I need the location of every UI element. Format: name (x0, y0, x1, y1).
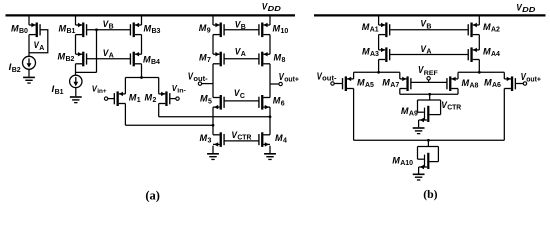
ground (413, 127, 425, 134)
transistor MB4 (130, 52, 142, 67)
svg-text:B2: B2 (12, 67, 21, 74)
terminal Vout+ (b) (523, 82, 526, 85)
wire (28, 69, 30, 76)
transistor MA9 (418, 100, 441, 127)
transistor MA3 (379, 47, 391, 62)
transistor MA4 (468, 47, 480, 62)
svg-text:in-: in- (177, 87, 186, 94)
wire (516, 83, 524, 85)
transistor MB3 (130, 23, 142, 38)
transistor MB0 (29, 23, 41, 38)
svg-text:B4: B4 (151, 59, 160, 66)
wire join right (458, 71, 504, 73)
svg-text:in+: in+ (97, 88, 107, 95)
svg-text:A: A (39, 45, 44, 52)
svg-text:A9: A9 (409, 111, 418, 118)
svg-text:B0: B0 (19, 28, 28, 35)
svg-text:B3: B3 (152, 28, 161, 35)
wire tail (125, 77, 158, 79)
wire (124, 78, 126, 94)
svg-text:DD: DD (522, 7, 535, 14)
wire VB gate line (b) (390, 29, 468, 31)
svg-text:10: 10 (281, 28, 289, 35)
wire (28, 35, 30, 57)
transistor M7 (213, 52, 225, 67)
transistor MA10 (418, 147, 439, 174)
wire (141, 17, 143, 26)
terminal Vout- (b) (331, 82, 334, 85)
svg-text:6: 6 (281, 100, 285, 107)
svg-text:1: 1 (137, 97, 141, 104)
wire (399, 72, 401, 79)
wire (28, 17, 30, 26)
transistor MA8 (446, 76, 458, 91)
svg-text:A2: A2 (491, 27, 500, 34)
wire cross upper (159, 116, 270, 118)
wire (269, 35, 271, 55)
wire cross lower (125, 124, 213, 126)
ground (207, 153, 219, 160)
wire (212, 64, 214, 98)
transistor M5 (213, 95, 225, 110)
wire (503, 72, 505, 79)
svg-text:out+: out+ (284, 76, 299, 83)
wire (353, 72, 355, 79)
svg-text:A3: A3 (370, 51, 379, 58)
wire VA gate line left (87, 58, 130, 60)
svg-text:4: 4 (283, 138, 287, 145)
transistor M4 (258, 132, 270, 147)
wire (478, 35, 480, 50)
wire VREF gate line (411, 81, 446, 83)
terminal Vin+ (104, 97, 107, 100)
svg-text:B2: B2 (66, 56, 75, 63)
wire (378, 60, 380, 73)
node (377, 71, 380, 74)
wire (141, 35, 143, 55)
svg-text:A6: A6 (492, 82, 501, 89)
wire (478, 60, 480, 73)
svg-text:REF: REF (424, 70, 438, 77)
power rail VDD (a) (6, 14, 296, 16)
ground (264, 153, 276, 160)
svg-text:5: 5 (208, 98, 212, 105)
svg-text:3: 3 (208, 138, 212, 145)
transistor M6 (258, 95, 270, 110)
svg-text:8: 8 (282, 57, 286, 64)
wire (378, 17, 380, 26)
wire (170, 98, 176, 100)
transistor MA6 (504, 76, 516, 91)
svg-text:A: A (241, 51, 246, 58)
wire (269, 107, 271, 135)
wire VB gate line left (87, 29, 130, 31)
svg-text:A10: A10 (400, 160, 413, 167)
svg-text:out-: out- (193, 76, 208, 83)
wire (75, 88, 77, 97)
wire (29, 30, 48, 53)
power rail VDD (b) (314, 14, 546, 16)
transistor M8 (258, 52, 270, 67)
wire (269, 64, 271, 98)
ground (413, 174, 425, 181)
svg-text:B: B (109, 24, 114, 31)
wire (158, 78, 160, 94)
wire join left (354, 71, 400, 73)
svg-text:7: 7 (207, 57, 211, 64)
wire (75, 72, 77, 75)
node (478, 71, 481, 74)
svg-text:B1: B1 (55, 89, 64, 96)
wire VA gate line (b) (390, 54, 468, 56)
wire (427, 140, 429, 146)
wire (353, 89, 355, 141)
wire (124, 104, 126, 126)
svg-text:C: C (240, 93, 245, 100)
terminal Vout+ (a) (279, 82, 282, 85)
wire (75, 35, 77, 55)
svg-text:B: B (241, 24, 246, 31)
ground (70, 96, 82, 103)
transistor MA1 (379, 23, 391, 38)
svg-text:DD: DD (268, 6, 281, 13)
wire (202, 83, 213, 85)
svg-text:A7: A7 (390, 82, 399, 89)
wire VA gate line right (225, 58, 260, 60)
transistor M3 (213, 132, 225, 147)
node tail junction (140, 76, 143, 79)
wire (429, 94, 431, 100)
svg-text:CTR: CTR (237, 135, 251, 142)
wire (503, 89, 505, 141)
wire (269, 146, 271, 153)
wire (270, 83, 279, 85)
node (428, 93, 431, 96)
current source IB1 (70, 75, 82, 87)
wire (141, 64, 143, 78)
terminal VREF (427, 77, 430, 80)
svg-text:9: 9 (207, 28, 211, 35)
wire (269, 17, 271, 26)
transistor M1 (114, 91, 126, 106)
svg-text:A5: A5 (365, 82, 374, 89)
transistor MA7 (400, 76, 412, 91)
svg-text:A: A (109, 53, 114, 60)
wire VB gate line right (225, 29, 260, 31)
wire (96, 30, 98, 73)
wire (212, 35, 214, 55)
svg-text:(b): (b) (423, 187, 437, 201)
wire VCTR gate line (225, 140, 260, 142)
transistor MB2 (76, 52, 88, 67)
node (212, 124, 215, 127)
transistor M10 (258, 23, 270, 38)
svg-text:A1: A1 (370, 27, 379, 34)
svg-text:out+: out+ (526, 77, 541, 84)
svg-text:2: 2 (153, 97, 157, 104)
svg-text:A8: A8 (470, 83, 479, 90)
wire (75, 17, 77, 26)
transistor MA2 (468, 23, 480, 38)
wire tail (b) (354, 139, 505, 141)
wire (212, 107, 214, 135)
transistor M9 (213, 23, 225, 38)
wire VCTR node (400, 93, 458, 95)
wire (76, 64, 97, 73)
wire (212, 146, 214, 153)
transistor MB1 (76, 23, 88, 38)
current source IB2 (23, 56, 36, 69)
wire VC gate line (225, 100, 260, 102)
transistor MA5 (342, 76, 354, 91)
terminal Vout- (a) (198, 82, 201, 85)
node VB junction (95, 28, 98, 31)
wire (457, 72, 459, 79)
svg-text:A: A (426, 49, 431, 56)
svg-text:out-: out- (322, 76, 337, 83)
wire (158, 104, 160, 117)
wire (399, 89, 401, 95)
wire (428, 80, 430, 83)
wire (334, 83, 342, 85)
terminal Vin- (176, 97, 179, 100)
wire (212, 17, 214, 26)
wire (378, 35, 380, 50)
svg-text:B: B (426, 23, 431, 30)
node (269, 115, 272, 118)
node (427, 139, 430, 142)
svg-text:(a): (a) (145, 189, 160, 202)
svg-text:CTR: CTR (447, 105, 461, 112)
ground (23, 77, 35, 84)
wire (457, 89, 459, 95)
svg-text:A4: A4 (491, 51, 500, 58)
wire (478, 17, 480, 26)
wire (108, 98, 115, 100)
svg-text:B1: B1 (67, 28, 76, 35)
transistor M2 (159, 91, 171, 106)
